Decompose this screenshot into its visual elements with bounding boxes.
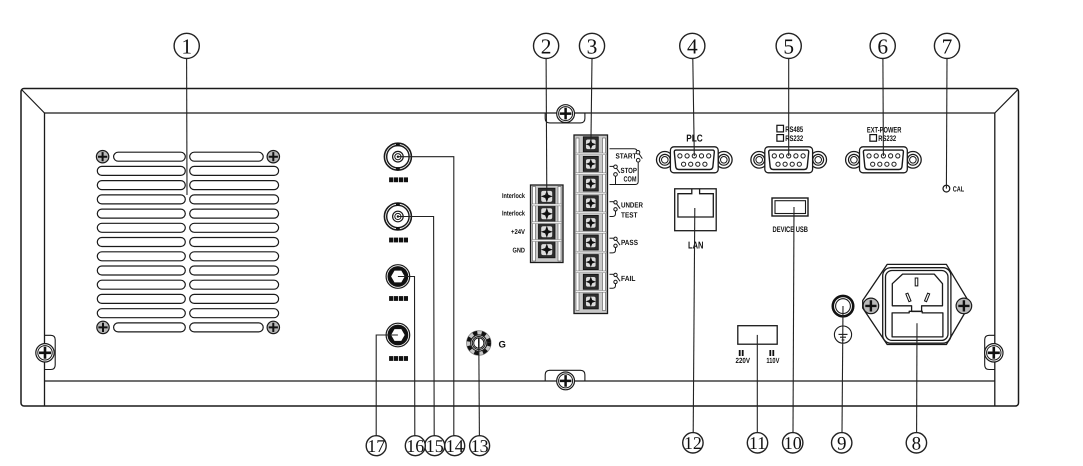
svg-text:START: START <box>616 151 637 160</box>
wire callout9 <box>842 306 843 433</box>
top-left bevel <box>22 90 45 113</box>
vent screw BL <box>97 321 109 333</box>
pass wiring <box>610 237 621 253</box>
label Y-axis output <box>389 238 408 243</box>
svg-text:7: 7 <box>942 34 953 58</box>
svg-text:16: 16 <box>406 436 424 456</box>
ground mark <box>834 326 851 343</box>
HV terminal Y <box>386 323 410 347</box>
checkbox RS232 <box>777 135 784 142</box>
callout 11 <box>747 433 767 453</box>
callout 5 <box>776 33 801 58</box>
wire callout5 <box>788 59 790 157</box>
label Y voltage <box>389 356 408 361</box>
svg-text:LAN: LAN <box>688 240 704 251</box>
svg-text:CAL: CAL <box>953 184 965 193</box>
bottom tab <box>545 370 585 381</box>
checkbox RS485 <box>777 125 784 132</box>
svg-text:Interlock: Interlock <box>502 210 525 218</box>
wire callout10 <box>793 207 794 433</box>
svg-text:RS485: RS485 <box>785 125 803 134</box>
callout 15 <box>425 436 445 456</box>
svg-text:11: 11 <box>749 433 766 453</box>
under test wiring <box>610 201 621 217</box>
callout 14 <box>445 436 465 456</box>
DB9 RS485/RS232 <box>751 147 827 173</box>
wire callout17 <box>376 335 398 436</box>
wire callout7 <box>945 59 948 189</box>
wire callout11 <box>756 335 758 433</box>
svg-text:EXT-POWER: EXT-POWER <box>867 126 902 135</box>
svg-text:17: 17 <box>367 436 385 456</box>
wire callout14 <box>398 157 454 436</box>
svg-text:Interlock: Interlock <box>502 192 525 200</box>
LAN port <box>675 189 717 231</box>
DB9 PLC <box>657 147 733 173</box>
wire callout6 <box>882 59 885 157</box>
svg-text:8: 8 <box>912 433 922 454</box>
svg-text:+24V: +24V <box>511 229 525 236</box>
110V marks <box>769 350 771 356</box>
wire callout13 <box>478 343 481 436</box>
svg-text:9: 9 <box>837 433 847 454</box>
svg-text:220V: 220V <box>736 356 751 365</box>
callout 13 <box>470 436 490 456</box>
start wiring <box>610 149 643 185</box>
callout 6 <box>870 33 895 58</box>
svg-text:1: 1 <box>181 34 192 58</box>
fuse hole <box>833 296 853 316</box>
BNC X-axis output <box>384 143 411 170</box>
prong slot right <box>925 293 930 302</box>
callout 10 <box>783 433 803 453</box>
USB port <box>772 198 808 216</box>
top tab screw <box>557 105 575 123</box>
top tab <box>545 113 585 123</box>
inlet screw left <box>863 298 879 314</box>
wire callout4 <box>693 59 695 157</box>
svg-text:G: G <box>499 340 506 351</box>
svg-text:10: 10 <box>784 433 802 453</box>
left tab <box>45 335 56 369</box>
vent screw BR <box>267 321 279 333</box>
svg-text:12: 12 <box>684 433 702 453</box>
right tab <box>985 335 995 369</box>
label X-axis output <box>389 177 408 182</box>
svg-text:RS232: RS232 <box>878 134 896 143</box>
svg-text:RS232: RS232 <box>785 134 803 143</box>
svg-text:TEST: TEST <box>621 210 638 219</box>
voltage selector <box>738 326 777 345</box>
svg-text:6: 6 <box>877 34 888 58</box>
wire callout3 <box>591 59 592 146</box>
fail wiring <box>610 273 621 288</box>
svg-text:15: 15 <box>426 436 444 456</box>
callout 2 <box>534 33 559 58</box>
checkbox RS232 ext <box>870 135 877 142</box>
HV terminal X <box>386 265 410 289</box>
svg-text:110V: 110V <box>766 356 779 365</box>
wire callout1 <box>186 59 188 196</box>
callout 7 <box>934 33 959 58</box>
callout 1 <box>174 33 199 58</box>
wire callout8 <box>916 323 918 433</box>
CAL point <box>943 185 950 192</box>
terminal strip 9-pos <box>574 135 608 314</box>
bottom tab screw <box>557 372 575 390</box>
rear panel face <box>45 113 995 406</box>
wire callout15 <box>398 217 434 436</box>
svg-text:2: 2 <box>541 34 552 58</box>
chassis outer box <box>21 89 1019 407</box>
callout 4 <box>680 33 705 58</box>
wire callout16 <box>398 277 415 436</box>
callout 16 <box>405 436 425 456</box>
svg-text:STOP: STOP <box>621 166 638 175</box>
220V marks <box>739 350 741 356</box>
top-right bevel <box>995 90 1018 113</box>
callout 12 <box>683 433 703 453</box>
callout 17 <box>366 436 386 456</box>
DB9 EXT-POWER <box>846 147 922 173</box>
svg-text:UNDER: UNDER <box>621 201 643 210</box>
bottom flange <box>45 380 995 382</box>
stop wiring <box>610 165 620 185</box>
svg-text:FAIL: FAIL <box>621 274 636 283</box>
svg-text:13: 13 <box>471 436 489 456</box>
wire callout12 <box>693 208 695 433</box>
vent grille <box>97 152 278 332</box>
vent screw TR <box>267 151 279 163</box>
right tab screw <box>985 344 1003 362</box>
svg-text:14: 14 <box>446 436 464 456</box>
prong slot top <box>915 278 918 286</box>
svg-text:PASS: PASS <box>621 238 638 247</box>
svg-text:GND: GND <box>513 247 526 254</box>
vent screw TL <box>96 151 108 163</box>
ground stud G <box>467 331 492 356</box>
left tab screw <box>36 344 54 362</box>
svg-text:COM: COM <box>624 175 637 184</box>
callout 8 <box>906 433 926 455</box>
BNC Y-axis output <box>384 203 411 230</box>
label X voltage <box>389 296 408 301</box>
terminal block interlock <box>531 185 564 263</box>
prong slot left <box>906 293 911 302</box>
AC inlet <box>863 264 968 344</box>
svg-text:4: 4 <box>687 34 698 58</box>
svg-text:3: 3 <box>587 34 598 58</box>
callout 9 <box>832 433 852 455</box>
wire callout2 <box>545 59 548 197</box>
svg-text:5: 5 <box>783 34 794 58</box>
callout 3 <box>579 33 604 58</box>
svg-text:DEVICE USB: DEVICE USB <box>773 225 809 234</box>
inlet screw right <box>956 298 972 314</box>
